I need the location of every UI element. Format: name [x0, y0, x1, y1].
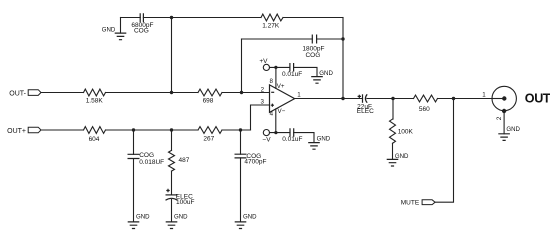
connector port OUT- — [28, 90, 41, 96]
wire 1800pF feedback line y=39 — [242, 38, 344, 40]
capacitor C 6800pF COG — [140, 13, 143, 22]
node junction at 171.5,17.5 — [170, 16, 173, 19]
wire OUT- line y=92.5 — [41, 92, 269, 94]
resistor R 487 vertical — [169, 150, 175, 171]
node jack center dot — [502, 96, 506, 100]
svg-text:0.01uF: 0.01uF — [282, 136, 302, 143]
ground GND (+V decoupling) — [311, 77, 323, 84]
resistor R 1.27K — [261, 14, 283, 21]
svg-text:GND: GND — [319, 70, 333, 77]
node junction at 171.5,92.5 — [170, 91, 173, 94]
svg-text:8: 8 — [269, 78, 273, 85]
svg-text:COG: COG — [134, 28, 149, 35]
op-amp U1 triangle — [270, 85, 295, 113]
resistor R 267 — [198, 127, 222, 134]
wire into jack center — [492, 98, 504, 100]
svg-text:604: 604 — [89, 136, 100, 143]
svg-text:GND: GND — [174, 214, 188, 221]
node jack pin2 dot — [502, 109, 506, 113]
wire 0.018uF branch — [133, 130, 135, 222]
power -V circle — [263, 130, 269, 136]
svg-text:698: 698 — [203, 98, 214, 105]
svg-text:1: 1 — [482, 91, 486, 98]
node junction 487 tap — [170, 128, 173, 131]
svg-text:1.58K: 1.58K — [86, 98, 104, 105]
capacitor C 100uF ELEC polarized — [166, 194, 178, 196]
node junction 4700pF tap — [239, 128, 242, 131]
svg-text:GND: GND — [243, 214, 257, 221]
resistor R 560 — [414, 95, 438, 102]
svg-text:267: 267 — [203, 136, 214, 143]
svg-text:0.018UF: 0.018UF — [139, 159, 164, 166]
capacitor C 0.01uF (top) — [290, 63, 294, 72]
svg-text:GND: GND — [102, 26, 116, 33]
ground GND top-left — [120, 18, 122, 34]
ground GND under 4700pF — [235, 222, 247, 229]
wire -V to 0.01uF — [276, 133, 314, 143]
svg-text:OUT+: OUT+ — [7, 128, 26, 135]
wire 100K branch — [392, 99, 394, 120]
svg-text:560: 560 — [419, 106, 430, 113]
svg-text:487: 487 — [179, 157, 190, 164]
op-amp plus input mark — [271, 104, 274, 107]
node junction 0.018uF tap — [132, 128, 135, 131]
node junction at 343,39 — [341, 37, 344, 40]
svg-text:0.01uF: 0.01uF — [282, 71, 302, 78]
ground GND under 100uF — [166, 222, 178, 229]
svg-text:MUTE: MUTE — [401, 200, 420, 207]
node junction MUTE tap — [452, 97, 455, 100]
svg-text:OUT: OUT — [525, 91, 550, 105]
node junction at 343,98.5 — [341, 97, 344, 100]
svg-text:ELEC: ELEC — [357, 108, 374, 115]
node junction at -V — [274, 131, 277, 134]
svg-text:100K: 100K — [398, 129, 414, 136]
svg-text:OUT-: OUT- — [9, 90, 26, 97]
wire left feedback vertical x=241.5 — [241, 39, 243, 93]
wire OUT+ line y=130 — [41, 129, 251, 131]
svg-text:GND: GND — [506, 126, 520, 133]
wire 4700pF branch — [240, 130, 242, 222]
wire to 100uF — [171, 171, 173, 222]
svg-text:2: 2 — [261, 86, 265, 93]
capacitor C 1800pF COG — [312, 35, 316, 44]
resistor R 698 — [198, 89, 222, 96]
svg-text:GND: GND — [395, 153, 409, 160]
node junction at 241.5,92.5 — [240, 91, 243, 94]
wire -V to pin4 — [270, 109, 276, 133]
wire top feedback line y=17.5 — [121, 17, 344, 19]
svg-text:−V: −V — [262, 136, 271, 143]
node junction 100K tap — [391, 97, 394, 100]
connector port OUT+ — [28, 127, 41, 133]
svg-text:2: 2 — [496, 116, 503, 120]
svg-text:1: 1 — [297, 92, 301, 99]
svg-text:3: 3 — [260, 99, 264, 106]
capacitor C 4700pF COG — [235, 154, 247, 158]
node junction at +V — [274, 66, 277, 69]
svg-text:4700pF: 4700pF — [244, 159, 266, 166]
wire op-amp output main line y=98.5 — [295, 98, 492, 100]
capacitor C 0.01uF (bottom) — [290, 128, 294, 137]
svg-text:100uF: 100uF — [176, 199, 194, 206]
wire 487 branch — [171, 130, 173, 150]
svg-text:GND: GND — [317, 136, 331, 143]
resistor R 604 — [84, 127, 106, 134]
connector J OUT jack circle — [492, 86, 516, 110]
resistor R 1.58K — [84, 89, 106, 96]
ground GND under 100K — [387, 159, 399, 166]
connector port MUTE — [422, 200, 435, 205]
svg-text:+V: +V — [259, 58, 268, 65]
wire pin3 stub — [251, 105, 270, 130]
svg-text:4: 4 — [270, 110, 274, 117]
wire +V to 0.01uF — [276, 67, 317, 76]
ground GND under 0.018uF — [128, 222, 140, 229]
svg-text:GND: GND — [136, 214, 150, 221]
wire +V to pin8 — [270, 67, 276, 88]
wire vertical x=171.5 from top line to OUT- line — [171, 18, 173, 93]
wire right feedback vertical x=343 — [342, 18, 344, 99]
capacitor C 0.018UF COG — [128, 154, 140, 158]
wire MUTE branch — [435, 99, 453, 203]
svg-text:COG: COG — [305, 52, 320, 59]
ground GND (-V decoupling) — [308, 143, 320, 150]
wire jack pin2 to gnd — [503, 111, 505, 134]
ground GND under jack — [498, 134, 510, 141]
power +V circle — [263, 64, 269, 70]
svg-text:V+: V+ — [277, 83, 285, 90]
svg-text:V−: V− — [278, 108, 286, 115]
capacitor C 22uF ELEC polarized — [362, 94, 364, 103]
resistor R 100K vertical — [390, 119, 396, 143]
svg-text:1.27K: 1.27K — [262, 22, 280, 29]
op-amp minus input mark — [271, 91, 274, 93]
